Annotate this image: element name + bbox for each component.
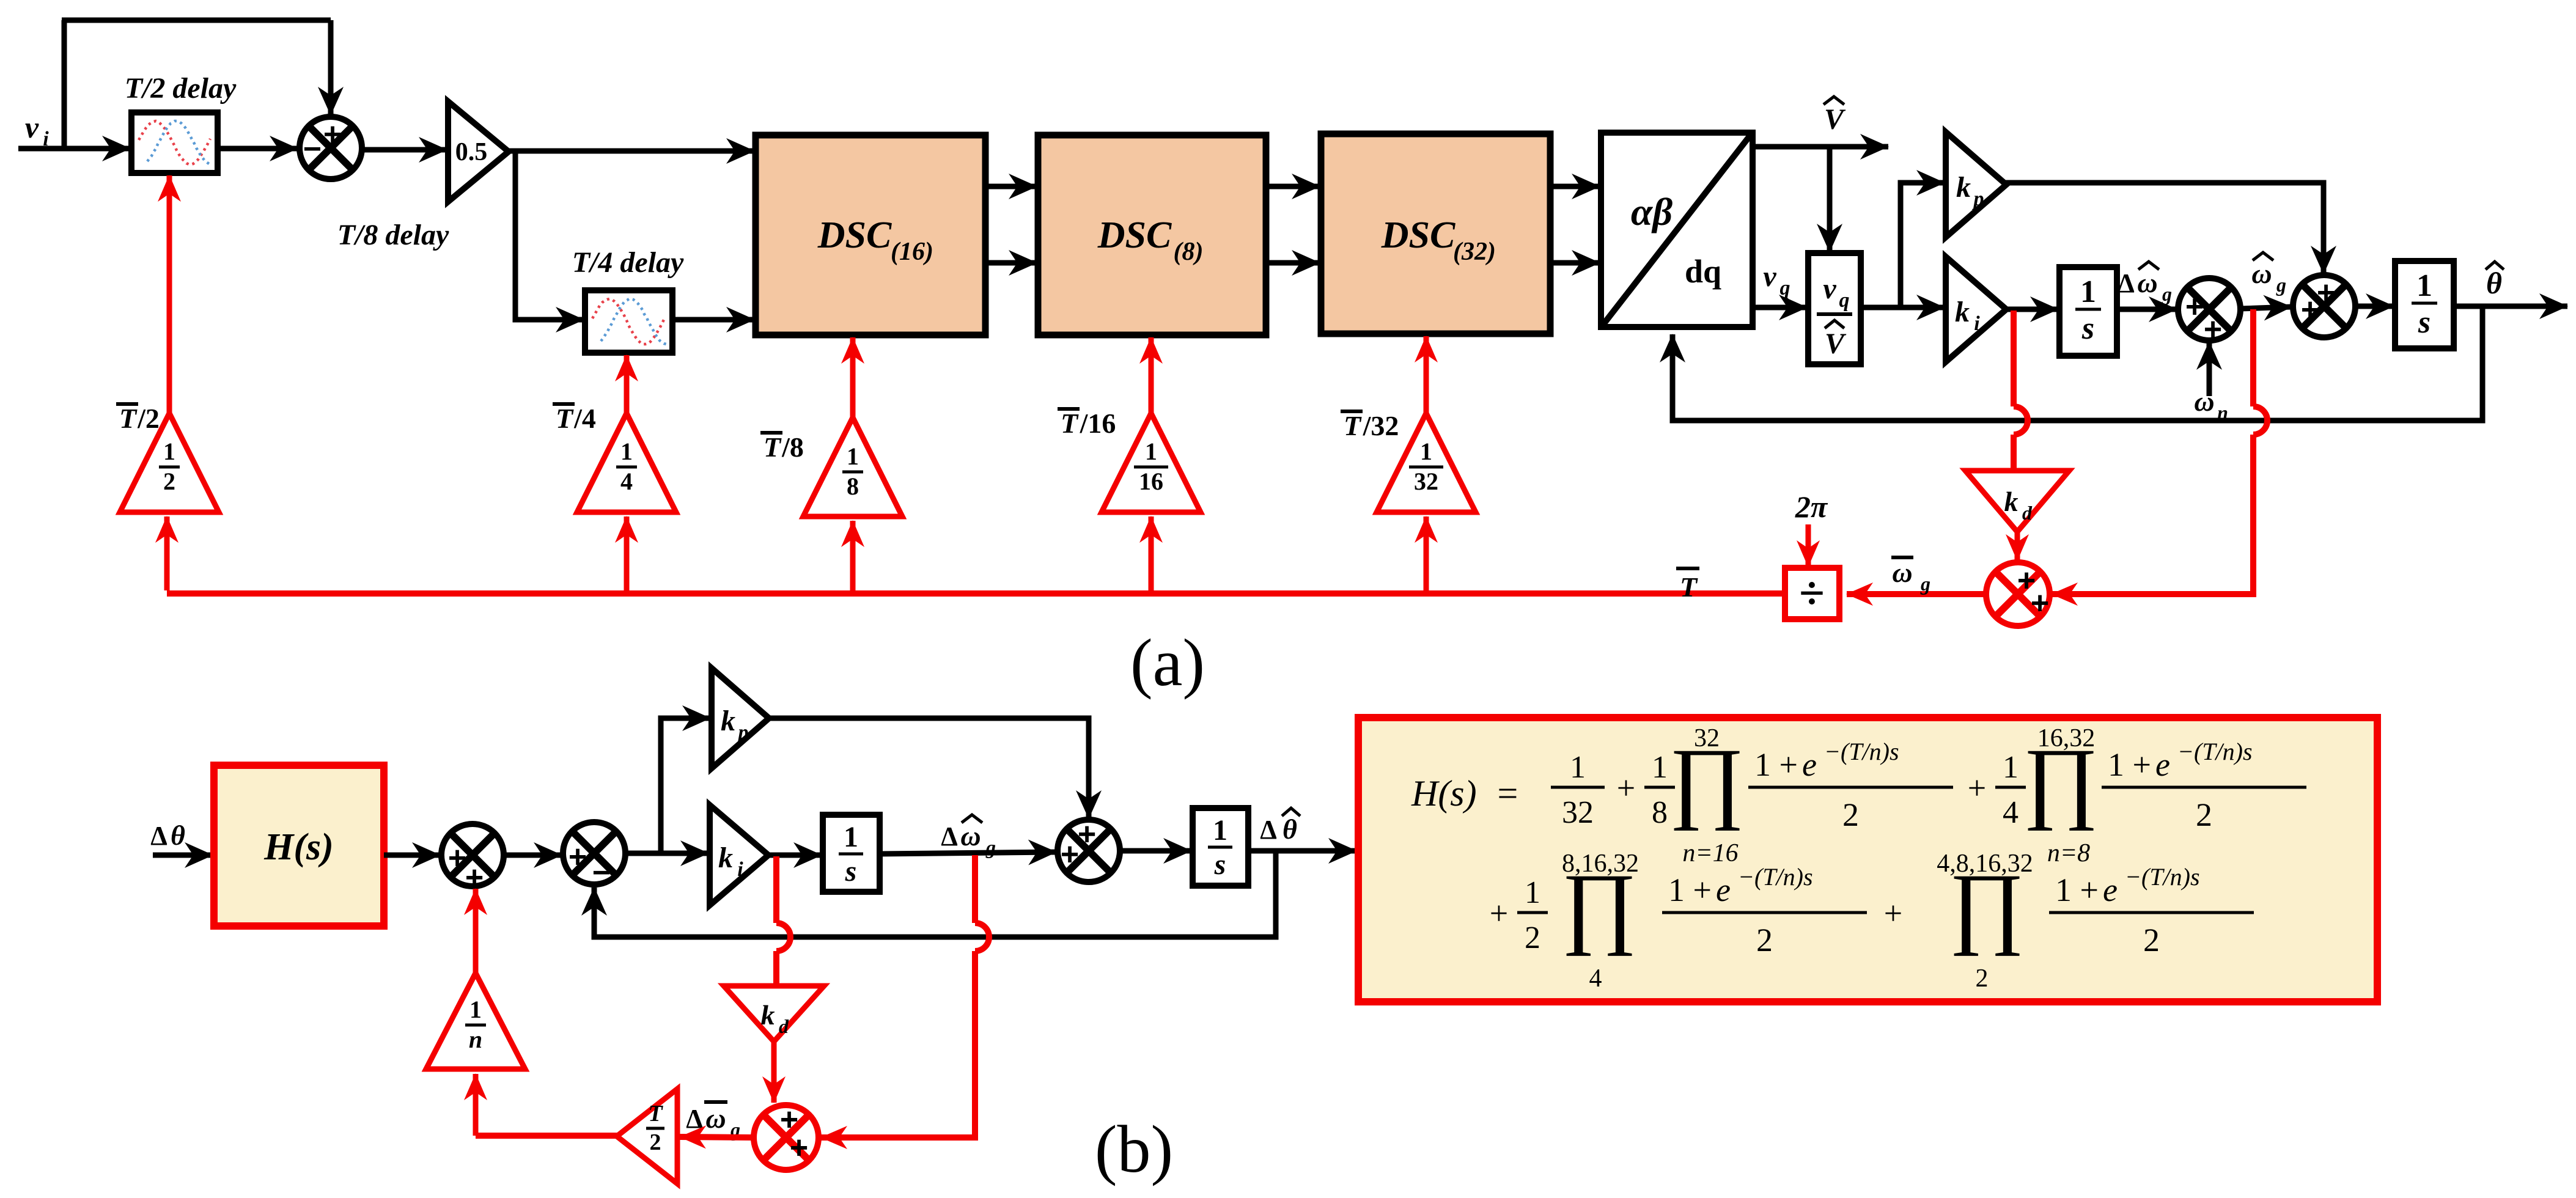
svg-text:1: 1 — [1525, 875, 1540, 910]
wire: theta-hat output — [2454, 304, 2567, 309]
svg-text:v: v — [25, 110, 39, 144]
svg-text:Δ: Δ — [2118, 268, 2135, 298]
node: branch up to kp — [1901, 183, 1945, 307]
svg-text:Δ: Δ — [941, 821, 958, 851]
equation: fraction 1 — [1748, 786, 1953, 789]
summing junction red S4 — [1986, 562, 2050, 626]
wire: delta-theta input (b) — [153, 853, 213, 858]
svg-text:k: k — [2004, 486, 2018, 517]
svg-text:ω: ω — [1892, 557, 1912, 588]
svg-text:d: d — [779, 1015, 789, 1037]
svg-text:T/2 delay: T/2 delay — [125, 72, 237, 105]
svg-text:32: 32 — [1562, 795, 1594, 830]
wire: DSC16 to DSC8 lower — [985, 260, 1037, 266]
equation: fraction 4 — [2049, 911, 2254, 914]
gain red 1/16 — [1102, 413, 1201, 512]
wire: feedback (b) to sum B2 — [594, 851, 1276, 937]
svg-text:2π: 2π — [1795, 490, 1828, 524]
summing junction S2 (omega) — [2178, 278, 2240, 340]
svg-text:i: i — [737, 858, 743, 881]
equation: 1/8 — [1644, 786, 1675, 789]
svg-text:16,32: 16,32 — [2037, 724, 2096, 752]
wire: vq/V out with branch to kp and ki — [1861, 305, 1945, 311]
svg-text:ω: ω — [2137, 267, 2157, 298]
wire: V-hat output — [1753, 144, 1888, 150]
gain ki — [1946, 257, 2006, 362]
wire red: 1/2 to T/2 delay — [167, 175, 172, 413]
wire red: delta-omega branch down to B4 — [972, 855, 978, 923]
gain red 1/2 — [120, 413, 219, 512]
node: branch to T/4 delay — [515, 151, 584, 320]
svg-text:p: p — [737, 721, 749, 744]
svg-text:−(T/n)s: −(T/n)s — [1738, 863, 1813, 891]
svg-text:g: g — [1920, 573, 1930, 595]
wire: T/4 delay to DSC16 lower input — [672, 317, 754, 323]
wire: T/2 delay to sum S1 — [218, 146, 298, 152]
svg-text:T/4 delay: T/4 delay — [572, 246, 684, 279]
wire red: 1/8 to DSC16 — [850, 337, 856, 417]
svg-text:T: T — [764, 432, 782, 463]
svg-text:H(s) =: H(s) = — [1411, 773, 1520, 814]
wire: omega_n input — [2207, 342, 2212, 396]
svg-text:+: + — [1061, 837, 1079, 872]
svg-text:+: + — [2301, 292, 2319, 328]
wire red: T-bar/16 feed from bus — [1149, 516, 1154, 590]
block H(s) — [214, 765, 384, 926]
svg-text:(8): (8) — [1174, 238, 1204, 266]
svg-text:+: + — [2204, 312, 2222, 347]
svg-text:e: e — [2155, 746, 2170, 783]
svg-text:8,16,32: 8,16,32 — [1562, 850, 1639, 878]
svg-text:8: 8 — [1652, 795, 1668, 830]
svg-text:θ: θ — [171, 820, 185, 851]
svg-text:1: 1 — [1652, 750, 1668, 785]
wire: ki out to 1/s (b) — [768, 853, 822, 858]
svg-text:g: g — [985, 836, 996, 858]
gain red T/2 (left pointing) — [617, 1089, 677, 1184]
svg-text:g: g — [2276, 274, 2286, 296]
svg-text:+: + — [1490, 895, 1508, 932]
gain red 1/32 — [1377, 413, 1476, 512]
svg-text:n=8: n=8 — [2047, 839, 2090, 867]
wire: ki out to integrator 1/s — [2006, 307, 2058, 312]
svg-text:DSC: DSC — [817, 215, 892, 256]
svg-text:4: 4 — [2003, 795, 2018, 830]
wire: B2 to ki (b) — [625, 851, 708, 856]
wire red: B4 to T/2 gain — [680, 1137, 754, 1137]
svg-text:s: s — [2418, 305, 2431, 340]
wire red: T/2 to corner and up to 1/n — [476, 1133, 617, 1139]
svg-text:i: i — [1974, 312, 1980, 335]
svg-text:+: + — [2317, 275, 2335, 311]
svg-text:8: 8 — [847, 472, 859, 500]
wire red: omega-bar-g into divider — [1847, 591, 1984, 597]
wire red: T-bar/8 feed from bus — [850, 521, 856, 590]
svg-text:T: T — [648, 1101, 663, 1126]
svg-text:(a): (a) — [1130, 625, 1205, 700]
svg-text:H(s): H(s) — [263, 826, 334, 868]
equation box H(s) — [1358, 718, 2377, 1002]
gain red 1/8 — [803, 417, 902, 516]
svg-text:+: + — [2185, 289, 2204, 325]
svg-text:2: 2 — [1976, 965, 1989, 993]
wire: DSC32 to alpha-beta/dq lower — [1550, 260, 1600, 266]
summing junction S1 — [300, 117, 362, 179]
svg-text:2: 2 — [1525, 921, 1540, 955]
svg-text:ω: ω — [705, 1103, 726, 1134]
gain block 0.5 — [448, 101, 509, 202]
svg-text:2: 2 — [2143, 922, 2160, 958]
svg-text:(32): (32) — [1453, 238, 1496, 266]
svg-text:4: 4 — [620, 468, 633, 495]
wire red: 1/32 to DSC32 — [1424, 336, 1429, 413]
svg-text:s: s — [1214, 848, 1226, 881]
svg-text:−(T/n)s: −(T/n)s — [2125, 863, 2200, 891]
delay block T/4 delay — [585, 290, 672, 353]
svg-text:1: 1 — [2003, 750, 2018, 785]
wire red: omega-hat-g branch down to S4 — [2250, 309, 2256, 406]
svg-text:4,8,16,32: 4,8,16,32 — [1937, 850, 2033, 878]
svg-text:s: s — [845, 855, 857, 887]
svg-text:1: 1 — [847, 443, 859, 470]
wire: 1/s to sum B3 delta-omega-hat-g — [880, 852, 1056, 854]
svg-text:Δ: Δ — [1260, 815, 1277, 845]
block DSC(16) — [756, 135, 985, 335]
equation: 1/2 — [1517, 911, 1548, 914]
wire: B1 to B2 — [504, 853, 562, 858]
svg-text:Δ: Δ — [150, 821, 167, 851]
svg-text:q: q — [1780, 277, 1790, 299]
svg-text:(16): (16) — [891, 238, 933, 266]
wire: DSC32 to alpha-beta/dq upper — [1550, 184, 1600, 189]
svg-text:k: k — [761, 999, 775, 1031]
svg-text:p: p — [1972, 188, 1984, 210]
svg-text:1: 1 — [1570, 750, 1586, 785]
svg-text:T: T — [556, 403, 574, 434]
wire red: T-bar/4 feed from bus — [624, 516, 630, 590]
svg-text:ω: ω — [2194, 386, 2214, 417]
summing junction B1 — [441, 824, 504, 886]
equation: 1/4 — [1995, 786, 2026, 789]
svg-text:1: 1 — [469, 996, 482, 1023]
svg-text:/4: /4 — [573, 403, 596, 434]
svg-text:+: + — [448, 840, 466, 876]
svg-text:+: + — [2031, 586, 2049, 621]
wire: S1 to gain 0.5 — [362, 147, 447, 153]
wire: B3 to 1/s (b2) — [1120, 848, 1191, 854]
svg-text:DSC: DSC — [1097, 215, 1172, 256]
svg-text:e: e — [1802, 746, 1817, 783]
svg-text:ω: ω — [960, 820, 981, 851]
node: branch up to kp (b) — [661, 718, 710, 853]
block vq over V-hat — [1808, 253, 1861, 364]
svg-text:Δ: Δ — [686, 1104, 703, 1134]
svg-text:1 +: 1 + — [2055, 872, 2099, 908]
svg-text:1: 1 — [1420, 438, 1432, 465]
wire: DSC16 to DSC8 upper — [985, 184, 1037, 189]
wire: DSC8 to DSC32 upper — [1266, 184, 1320, 189]
wire: feedforward to sum S1 — [62, 18, 331, 23]
node: v_i branch — [62, 20, 67, 151]
svg-text:+: + — [1078, 817, 1096, 852]
block integrator 1/s (b1) — [823, 815, 880, 892]
svg-text:/8: /8 — [781, 432, 804, 463]
svg-text:−: − — [303, 131, 322, 167]
svg-text:+: + — [1884, 895, 1902, 932]
svg-text:1: 1 — [163, 438, 175, 465]
svg-text:4: 4 — [1589, 965, 1602, 993]
svg-text:s: s — [2081, 311, 2094, 346]
svg-text:1: 1 — [844, 821, 858, 853]
svg-text:2: 2 — [650, 1130, 661, 1155]
gain kp (b) — [712, 668, 769, 768]
svg-text:1: 1 — [1145, 438, 1157, 465]
wire: vq output to vq/V block — [1753, 305, 1807, 311]
svg-text:+: + — [569, 839, 587, 875]
summing junction B2 — [563, 822, 625, 884]
svg-text:1: 1 — [1213, 814, 1227, 847]
wire red: 2pi into divider — [1806, 524, 1811, 567]
wire red: period bus T-bar — [167, 590, 1785, 597]
wire red: T-bar/2 feed from bus — [164, 516, 170, 590]
equation: fraction 2 — [2102, 786, 2306, 789]
wire: kp out to sum S3 — [2006, 183, 2324, 274]
svg-text:÷: ÷ — [1799, 568, 1825, 619]
wire red: 1/16 to DSC8 — [1149, 337, 1154, 413]
wire: DSC8 to DSC32 lower — [1266, 260, 1320, 266]
wire: v_i input — [18, 146, 130, 152]
svg-text:−(T/n)s: −(T/n)s — [2177, 738, 2253, 765]
gain red kd (a) — [1965, 471, 2069, 532]
summing junction B3 — [1058, 820, 1120, 882]
svg-text:i: i — [43, 128, 49, 150]
wire: feedback theta to dq transform — [1673, 306, 2482, 421]
svg-text:/32: /32 — [1363, 410, 1399, 441]
equation: fraction 3 — [1662, 911, 1867, 914]
svg-text:θ: θ — [2486, 266, 2502, 300]
gain kp — [1946, 132, 2006, 237]
svg-text:V: V — [1825, 328, 1847, 360]
wire: V-hat branch down to vq/V block — [1827, 147, 1833, 252]
wire: delta-theta-hat output — [1248, 848, 1356, 854]
svg-text:2: 2 — [1842, 796, 1859, 833]
wire: kp out to sum B3 — [768, 718, 1089, 818]
block integrator 1/s (a) — [2059, 267, 2117, 356]
svg-text:32: 32 — [1694, 724, 1720, 752]
svg-text:+: + — [790, 1130, 808, 1166]
svg-text:dq: dq — [1685, 253, 1721, 290]
svg-text:1: 1 — [2080, 274, 2096, 309]
svg-text:DSC: DSC — [1381, 215, 1455, 256]
svg-text:V: V — [1824, 103, 1846, 136]
svg-text:+: + — [1617, 770, 1635, 806]
gain red 1/n — [426, 973, 525, 1069]
svg-text:32: 32 — [1414, 468, 1438, 495]
summing junction S3 — [2293, 275, 2355, 337]
wire red: kd to red sum B4 — [771, 1042, 777, 1103]
svg-text:T: T — [119, 403, 138, 434]
svg-text:(b): (b) — [1095, 1112, 1173, 1186]
svg-text:θ: θ — [1282, 814, 1297, 845]
wire red: ki branch down to kd — [2011, 311, 2017, 406]
svg-text:/2: /2 — [137, 403, 160, 434]
delay block T/2 delay — [131, 112, 218, 173]
wire: S3 to integrator 1/s 2 — [2355, 304, 2394, 309]
svg-text:n=16: n=16 — [1682, 839, 1738, 867]
wire: H(s) to sum B1 — [384, 853, 440, 858]
divider block — [1785, 568, 1839, 619]
svg-text:2: 2 — [1756, 922, 1773, 958]
svg-text:T/8 delay: T/8 delay — [337, 219, 449, 251]
svg-text:ω: ω — [2251, 258, 2272, 289]
svg-text:n: n — [469, 1026, 482, 1053]
svg-text:2: 2 — [163, 468, 175, 495]
svg-text:1 +: 1 + — [2108, 746, 2151, 783]
wire red: T-bar/32 feed from bus — [1424, 516, 1429, 590]
svg-text:T: T — [1680, 571, 1698, 603]
wire: S2 to S3 omega-hat-g — [2240, 307, 2292, 309]
svg-text:16: 16 — [1139, 468, 1163, 495]
wire red: kd to S4 — [2015, 531, 2020, 560]
wire: 1/s to sum S2 — [2117, 307, 2177, 312]
svg-text:T: T — [1344, 410, 1362, 441]
svg-text:+: + — [323, 117, 342, 152]
wire red: 1/n up to sum B1 — [473, 889, 479, 973]
block DSC(32) — [1321, 134, 1550, 334]
svg-text:/16: /16 — [1080, 408, 1116, 439]
svg-text:v: v — [1763, 260, 1776, 293]
block integrator 1/s (a2) — [2395, 261, 2454, 348]
svg-text:αβ: αβ — [1631, 190, 1673, 233]
summing junction red B4 — [754, 1105, 819, 1170]
svg-text:1 +: 1 + — [1668, 872, 1712, 908]
block alpha-beta to dq transform — [1601, 133, 1753, 327]
svg-text:k: k — [718, 842, 733, 874]
gain ki (b) — [710, 805, 768, 905]
svg-text:1 +: 1 + — [1754, 746, 1798, 783]
svg-text:k: k — [721, 705, 735, 737]
block DSC(8) — [1038, 135, 1266, 335]
wire: gain 0.5 to DSC16 upper input — [509, 149, 754, 154]
svg-text:−(T/n)s: −(T/n)s — [1824, 738, 1899, 765]
gain red 1/4 — [577, 413, 676, 512]
gain red kd (b) — [724, 986, 824, 1042]
svg-text:v: v — [1823, 273, 1836, 305]
svg-text:e: e — [1716, 872, 1731, 908]
wire red: ki branch down to kd (b) — [773, 856, 779, 923]
svg-text:k: k — [1955, 296, 1970, 328]
svg-text:0.5: 0.5 — [455, 138, 488, 166]
block integrator 1/s (b2) — [1193, 808, 1248, 886]
svg-text:q: q — [1839, 289, 1850, 312]
svg-text:1: 1 — [620, 438, 633, 465]
svg-text:k: k — [1956, 171, 1971, 204]
svg-text:g: g — [2162, 283, 2172, 305]
svg-text:2: 2 — [2196, 796, 2212, 833]
svg-text:+: + — [1968, 770, 1986, 806]
svg-text:d: d — [2022, 502, 2033, 524]
equation: 1/32 — [1551, 786, 1605, 789]
svg-text:−: − — [592, 855, 611, 891]
svg-text:1: 1 — [2416, 268, 2432, 303]
svg-text:e: e — [2103, 872, 2118, 908]
svg-text:T: T — [1061, 408, 1079, 439]
wire red: 1/4 to T/4 delay — [624, 355, 630, 413]
